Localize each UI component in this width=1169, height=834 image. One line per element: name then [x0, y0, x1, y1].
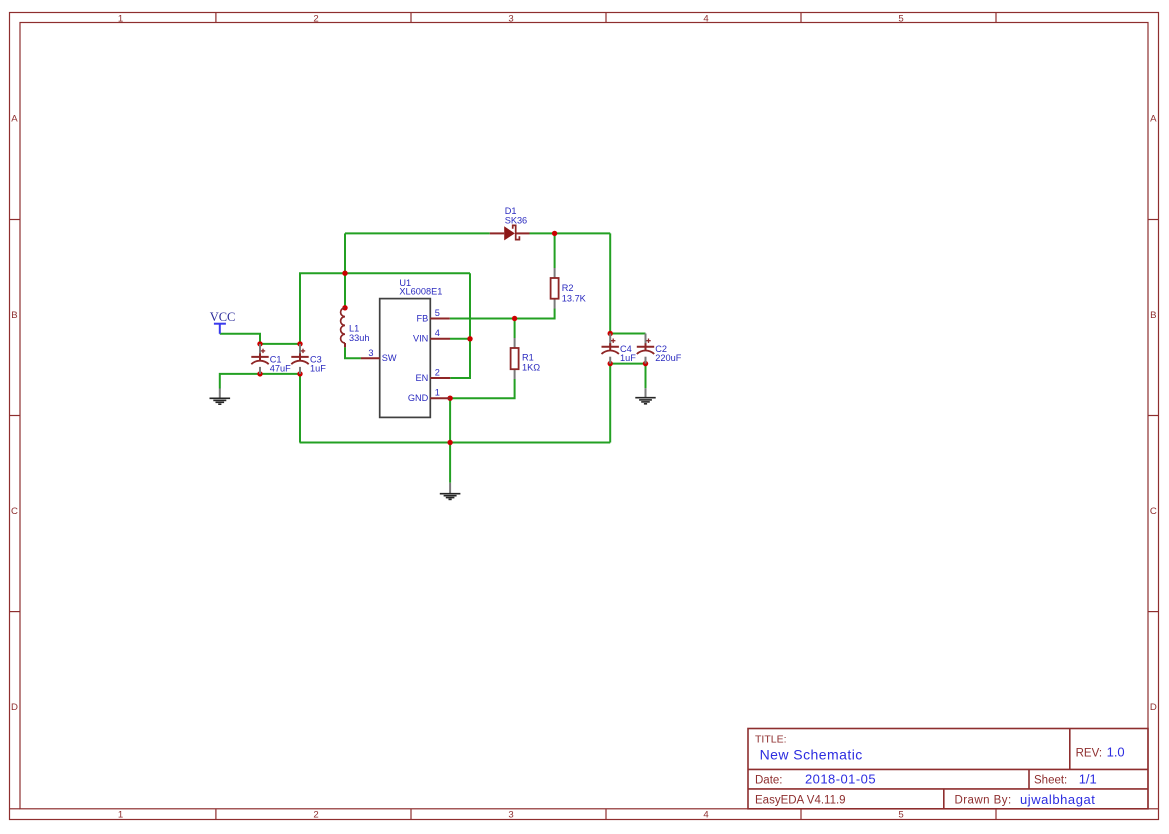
wire FB junction down to R1	[514, 319, 516, 339]
svg-text:1: 1	[435, 388, 440, 398]
wire GND junction down to mid ground	[449, 398, 451, 483]
junction C1 bottom	[257, 371, 262, 376]
capacitor C4	[602, 334, 637, 364]
svg-text:D: D	[1150, 702, 1157, 713]
svg-text:5: 5	[435, 308, 440, 318]
svg-text:Date:: Date:	[755, 775, 783, 787]
VCC net flag	[210, 310, 236, 334]
wire FB rail to R2 bottom	[450, 309, 555, 319]
svg-text:2: 2	[435, 368, 440, 378]
junction C3 bottom	[297, 371, 302, 376]
ground right	[635, 388, 655, 404]
svg-text:4: 4	[703, 810, 709, 821]
U1 pin 2 EN	[416, 368, 451, 383]
svg-text:GND: GND	[408, 393, 429, 403]
svg-text:1: 1	[118, 13, 123, 24]
svg-text:220uF: 220uF	[655, 353, 681, 363]
svg-text:1KΩ: 1KΩ	[522, 363, 540, 373]
svg-text:Drawn By:: Drawn By:	[955, 795, 1012, 807]
frame ruler ticks top	[216, 13, 996, 23]
svg-text:B: B	[1150, 310, 1156, 321]
svg-text:C: C	[11, 506, 18, 517]
wire L1 bottom to SW pin	[345, 347, 361, 358]
svg-text:5: 5	[898, 13, 903, 24]
junction at rail2 / L1 column	[342, 271, 347, 276]
svg-text:D: D	[11, 702, 18, 713]
frame ruler ticks left	[10, 220, 21, 612]
junction C2 bottom	[643, 361, 648, 366]
junction C3 top	[297, 341, 302, 346]
svg-text:SK36: SK36	[505, 215, 527, 225]
wires	[220, 233, 646, 482]
junction VIN pin	[467, 336, 472, 341]
junction C4 bottom	[608, 361, 613, 366]
svg-text:5: 5	[898, 810, 903, 821]
wire bottom rail	[300, 442, 611, 444]
U1 pin 4 VIN	[413, 328, 450, 344]
svg-text:C: C	[1150, 506, 1157, 517]
wire top rail right of D1	[530, 232, 611, 234]
wire VCC to C1 top	[220, 334, 260, 344]
svg-text:4: 4	[703, 13, 709, 24]
title block box	[748, 729, 1148, 809]
frame ruler ticks right	[1148, 220, 1159, 612]
junction D1 cathode / R2 column	[552, 231, 557, 236]
wire EN column down	[450, 273, 470, 378]
junction bottom rail / ground stub	[447, 440, 452, 445]
U1 pin 3 SW	[361, 348, 397, 363]
capacitor C2	[637, 334, 682, 364]
IC U1 XL6008E1 body	[380, 278, 443, 418]
svg-text:R2: R2	[562, 283, 574, 293]
svg-text:EN: EN	[416, 373, 429, 383]
svg-text:1/1: 1/1	[1079, 772, 1097, 787]
ground middle	[440, 483, 461, 500]
svg-text:R1: R1	[522, 352, 534, 362]
svg-text:FB: FB	[417, 313, 429, 323]
resistor R1	[511, 338, 541, 379]
svg-text:EasyEDA V4.11.9: EasyEDA V4.11.9	[755, 795, 846, 807]
wire C1 top to C3 top	[260, 343, 300, 345]
svg-text:2: 2	[313, 13, 318, 24]
svg-text:A: A	[11, 114, 18, 125]
svg-text:47uF: 47uF	[270, 364, 291, 374]
junction C1 top	[257, 341, 262, 346]
svg-text:TITLE:: TITLE:	[755, 733, 787, 745]
svg-text:VCC: VCC	[210, 310, 236, 324]
svg-text:ujwalbhagat: ujwalbhagat	[1020, 792, 1095, 807]
svg-text:4: 4	[435, 328, 440, 338]
wire C1 bottom to C3 bottom	[260, 373, 300, 375]
frame row letters right	[1150, 114, 1157, 714]
svg-text:3: 3	[508, 810, 513, 821]
svg-text:2018-01-05: 2018-01-05	[805, 772, 876, 787]
svg-text:1.0: 1.0	[1107, 745, 1125, 760]
diode D1 SK36	[490, 206, 530, 240]
svg-text:Sheet:: Sheet:	[1034, 775, 1067, 787]
frame ruler ticks bottom	[216, 809, 996, 820]
svg-text:VIN: VIN	[413, 334, 428, 344]
wire top rail left of D1	[345, 232, 490, 234]
wire C4 bottom down to bottom rail	[609, 364, 611, 443]
wire C4 bottom to C2 bottom	[610, 363, 645, 365]
wire C1 bottom to left ground	[220, 374, 260, 389]
svg-text:1: 1	[118, 810, 123, 821]
frame column numbers bottom	[118, 810, 904, 821]
U1 pin 1 GND	[408, 388, 450, 404]
wire C3 top up and rail to EN column	[300, 273, 470, 344]
svg-text:1uF: 1uF	[310, 364, 326, 374]
svg-text:SW: SW	[382, 353, 397, 363]
junction FB rail / R1 top	[512, 316, 517, 321]
junction GND pin	[447, 396, 452, 401]
svg-text:2: 2	[313, 810, 318, 821]
inductor L1	[341, 308, 370, 348]
capacitor C3	[291, 344, 326, 374]
wire C3 bottom down to bottom rail	[299, 374, 301, 443]
svg-text:XL6008E1: XL6008E1	[399, 287, 442, 297]
junction at L1 top pin	[342, 305, 347, 310]
resistor R2	[551, 268, 587, 309]
capacitor C1	[251, 344, 291, 374]
wire R1 bottom to GND pin	[450, 379, 514, 398]
wire C4 top to C2 top	[610, 333, 645, 335]
ground left	[210, 389, 231, 405]
wire VIN to column	[450, 338, 470, 340]
svg-text:B: B	[11, 310, 17, 321]
wire R2 top to top rail	[554, 233, 556, 268]
svg-text:33uh: 33uh	[349, 333, 369, 343]
svg-text:13.7K: 13.7K	[562, 293, 587, 303]
svg-text:New Schematic: New Schematic	[760, 747, 863, 763]
junction C4 top	[608, 331, 613, 336]
svg-text:3: 3	[508, 13, 513, 24]
frame row letters left	[11, 114, 18, 714]
frame bottom corner joints	[10, 808, 1159, 810]
wire vertical above L1	[344, 233, 346, 307]
svg-text:1uF: 1uF	[620, 353, 636, 363]
svg-text:3: 3	[368, 348, 373, 358]
wire C2 bottom to ground	[645, 364, 647, 389]
svg-text:REV:: REV:	[1076, 747, 1102, 759]
svg-text:A: A	[1150, 114, 1157, 125]
wire right rail down to C4	[609, 233, 611, 333]
frame column numbers top	[118, 13, 904, 24]
U1 pin 5 FB	[417, 308, 450, 323]
